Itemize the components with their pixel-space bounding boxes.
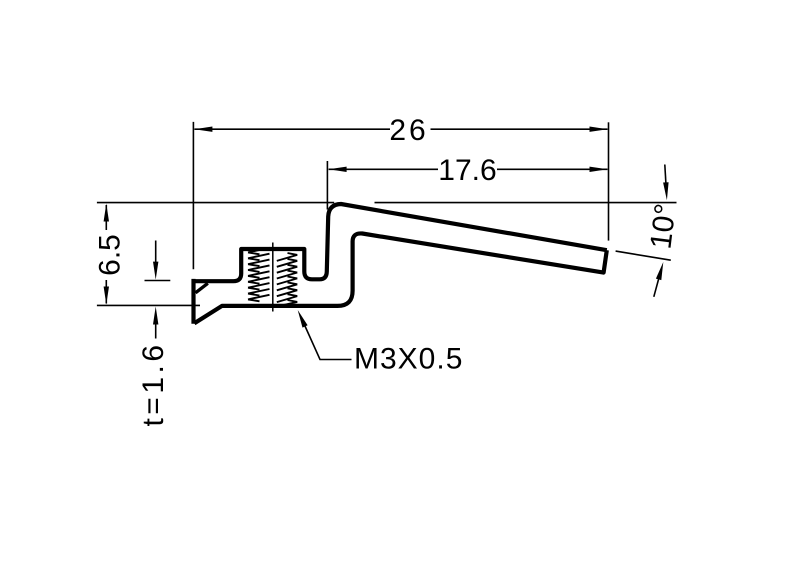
thread left flank coil <box>248 248 270 301</box>
svg-text:17.6: 17.6 <box>438 154 496 187</box>
thread right flank coil <box>277 253 298 307</box>
extension line left end of part (26 dim) <box>192 122 194 269</box>
extension line bottom reference (plate bottom level) <box>97 304 200 306</box>
svg-text:10°: 10° <box>644 202 682 251</box>
t=1.6 upper arrow <box>155 241 157 271</box>
angle upper arrow (points down to top ref line) <box>665 165 667 191</box>
svg-text:M3X0.5: M3X0.5 <box>354 343 463 376</box>
angle ref line 10 deg <box>616 251 671 260</box>
svg-text:6.5: 6.5 <box>94 234 127 276</box>
extension line top reference (arm apex level) <box>97 202 334 204</box>
part: fold line at left end <box>196 283 208 293</box>
dimension line 26 <box>194 128 390 130</box>
extension tick plate top (t=1.6 upper reference) <box>145 280 171 282</box>
thread centerline <box>272 243 274 312</box>
extension line bend tangent (17.6 dim) <box>326 161 328 210</box>
dimension line 6.5 <box>105 205 107 230</box>
svg-text:26: 26 <box>389 114 428 147</box>
t=1.6 lower arrow <box>155 315 157 339</box>
part: inner profile (top surface, boss, valley, riser, arm top) <box>192 204 607 281</box>
part: outer profile (bottom wedge, plate bottom, riser outer, arm bottom, end face) <box>194 233 607 323</box>
angle lower arrow (points up to 10 deg line) <box>654 271 661 297</box>
extension line right end of part (26/17.6 dim) <box>608 122 610 240</box>
dimension line 17.6 <box>329 168 438 170</box>
part: left end bar (wedge end face) <box>191 281 195 322</box>
svg-text:t=1.6: t=1.6 <box>137 341 170 426</box>
leader line M3X0.5 <box>303 321 352 360</box>
